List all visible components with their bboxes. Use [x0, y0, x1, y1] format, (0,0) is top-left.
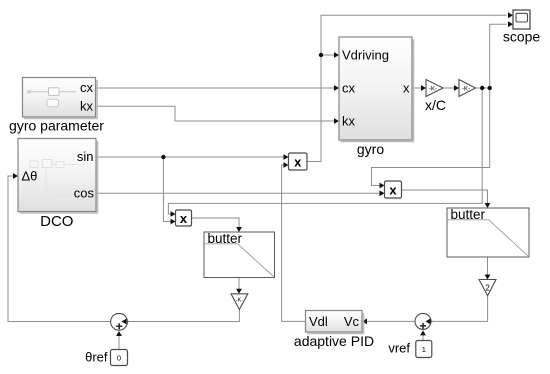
wire adaptive PID Vdl output up to product xA input 2 — [282, 162, 306, 321]
constant theta-ref — [111, 350, 128, 366]
wire sin branch down to product xB — [163, 157, 175, 224]
svg-text:x: x — [294, 154, 302, 169]
wire butter2 output to gain 2 — [485, 257, 491, 280]
wire sum2 output to adaptive PID Vc — [362, 319, 415, 325]
svg-text:0: 0 — [117, 354, 121, 363]
svg-text:scope: scope — [503, 29, 541, 45]
gain x/C — [426, 80, 443, 97]
filter butter1 — [204, 231, 275, 278]
svg-text:gyro parameter: gyro parameter — [9, 118, 104, 134]
wire after second gain — [476, 87, 490, 89]
svg-text:x/C: x/C — [425, 97, 446, 113]
svg-text:butter: butter — [451, 207, 486, 222]
subsystem adaptive PID — [306, 311, 364, 334]
wire vref constant to sum2 — [420, 330, 426, 340]
wire down-left to product xC input 1 — [372, 88, 490, 188]
wire down-left to product xB input 1 — [168, 88, 482, 217]
subsystem gyro — [339, 37, 414, 142]
wire sin from DCO to product xA — [96, 154, 289, 160]
gain K2 — [459, 80, 476, 97]
product xB — [176, 210, 192, 226]
scope U1 — [513, 10, 530, 29]
product xC — [385, 181, 402, 198]
svg-text:gyro: gyro — [357, 141, 384, 157]
gain -K- down — [231, 294, 248, 310]
wire cos from DCO to product xC — [96, 190, 385, 196]
svg-text:DCO: DCO — [40, 213, 73, 230]
wire butter1 output to gain -K- — [236, 278, 242, 294]
svg-text:cos: cos — [74, 186, 95, 201]
wire up to scope input 2 — [490, 21, 513, 88]
svg-text:kx: kx — [80, 99, 94, 114]
svg-text:vref: vref — [388, 341, 410, 356]
svg-text:θref: θref — [85, 350, 108, 365]
svg-text:Vdriving: Vdriving — [342, 48, 389, 63]
wire xB output to butter1 — [192, 218, 242, 232]
subsystem gyro parameter — [23, 78, 98, 119]
node junction gain out 2 — [488, 86, 492, 90]
node junction sin — [161, 155, 165, 159]
node junction gain out 1 — [480, 86, 484, 90]
svg-text:Δθ: Δθ — [22, 169, 38, 184]
wire gyro x output to gain x/C — [412, 85, 426, 91]
wire gain -K- output to sum1 — [122, 310, 240, 325]
wire xA output up to scope input 1 — [307, 12, 513, 161]
svg-text:x: x — [403, 81, 410, 96]
svg-text:Vdl: Vdl — [309, 314, 328, 329]
svg-text:x: x — [389, 182, 397, 197]
svg-text:sin: sin — [77, 149, 94, 164]
gain 2 down — [479, 280, 496, 296]
wire gain 2 output to sum2 — [426, 296, 488, 325]
svg-text:-K-: -K- — [429, 86, 437, 92]
product xA — [289, 153, 308, 170]
svg-text:Vc: Vc — [344, 314, 360, 329]
wire cx from gyro parameter to gyro — [96, 85, 340, 91]
sum1 — [111, 313, 129, 330]
svg-text:x: x — [180, 211, 188, 226]
svg-text:cx: cx — [342, 81, 356, 96]
svg-text:-K-: -K- — [236, 297, 244, 303]
wire gain x/C to gain 2 — [443, 85, 459, 91]
filter butter2 — [447, 207, 529, 257]
svg-text:adaptive PID: adaptive PID — [294, 333, 374, 349]
wire theta-ref constant to sum1 — [116, 331, 122, 350]
svg-text:-K-: -K- — [462, 86, 470, 92]
svg-text:kx: kx — [342, 114, 356, 129]
node junction Vdriving tap — [319, 53, 323, 57]
svg-text:1: 1 — [422, 345, 426, 354]
sum2 — [415, 313, 433, 329]
svg-text:butter: butter — [208, 231, 243, 246]
constant vref — [416, 341, 432, 358]
wire branch to Vdriving — [321, 52, 339, 58]
wire sum1 output feedback to DCO dtheta — [8, 173, 111, 321]
svg-text:2: 2 — [485, 284, 490, 293]
wire xC output to butter2 — [402, 190, 491, 208]
subsystem DCO — [18, 139, 98, 214]
svg-text:cx: cx — [80, 80, 94, 95]
wire kx from gyro parameter to gyro (with step) — [96, 106, 340, 124]
